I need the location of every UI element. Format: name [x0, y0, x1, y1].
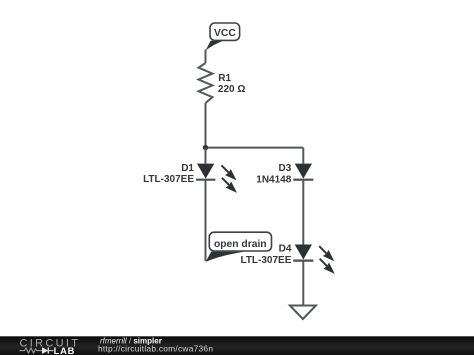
svg-text:LTL-307EE: LTL-307EE [240, 255, 291, 266]
D4 cathode bar [293, 260, 313, 262]
wire node A to LED D1 anode [205, 148, 207, 164]
svg-text:VCC: VCC [214, 28, 236, 39]
D1 anode triangle [197, 164, 214, 179]
svg-text:LTL-307EE: LTL-307EE [143, 174, 194, 185]
resistor R1 [199, 63, 246, 103]
net flag VCC [206, 23, 240, 50]
node A junction dot [203, 145, 208, 150]
svg-text:open drain: open drain [214, 239, 267, 250]
wire LED D1 cathode to open drain flag [205, 180, 207, 261]
svg-text:D4: D4 [279, 244, 292, 255]
svg-text:1N4148: 1N4148 [256, 174, 291, 185]
wire node A to right branch [206, 147, 304, 149]
svg-text:R1: R1 [218, 73, 231, 84]
open drain flag [206, 232, 272, 262]
footer bar [0, 336, 474, 355]
svg-text:220 Ω: 220 Ω [218, 84, 245, 95]
svg-text:D1: D1 [181, 163, 194, 174]
svg-text:D3: D3 [279, 163, 292, 174]
wire diode D3 cathode to LED D4 anode [302, 180, 304, 245]
LED D4 [240, 244, 334, 274]
D4 light emission arrows [319, 246, 335, 274]
CircuitLab logo schematic squiggle (wire, resistor, diode) [20, 348, 54, 354]
D4 anode triangle [295, 245, 312, 260]
wire right branch to diode D3 anode [302, 148, 304, 164]
VCC flag pointer [206, 41, 224, 51]
D3 cathode bar [293, 179, 313, 181]
svg-text:LAB: LAB [54, 346, 76, 355]
diode D3 [256, 163, 313, 186]
ground [290, 306, 316, 320]
D1 cathode bar [196, 179, 215, 181]
svg-text:http://circuitlab.com/cwa736n: http://circuitlab.com/cwa736n [98, 344, 213, 354]
open drain flag box [209, 232, 271, 251]
wire VCC flag to resistor R1 [205, 50, 207, 64]
open drain flag pointer [206, 252, 245, 262]
LED D1 [143, 163, 237, 193]
D1 light emission arrows [221, 165, 237, 193]
CircuitLab logo diode triangle [42, 347, 48, 354]
wire LED D4 cathode to ground [302, 261, 304, 306]
wire resistor R1 to node A [205, 103, 207, 148]
D3 anode triangle [295, 164, 312, 179]
VCC flag box [210, 23, 240, 40]
